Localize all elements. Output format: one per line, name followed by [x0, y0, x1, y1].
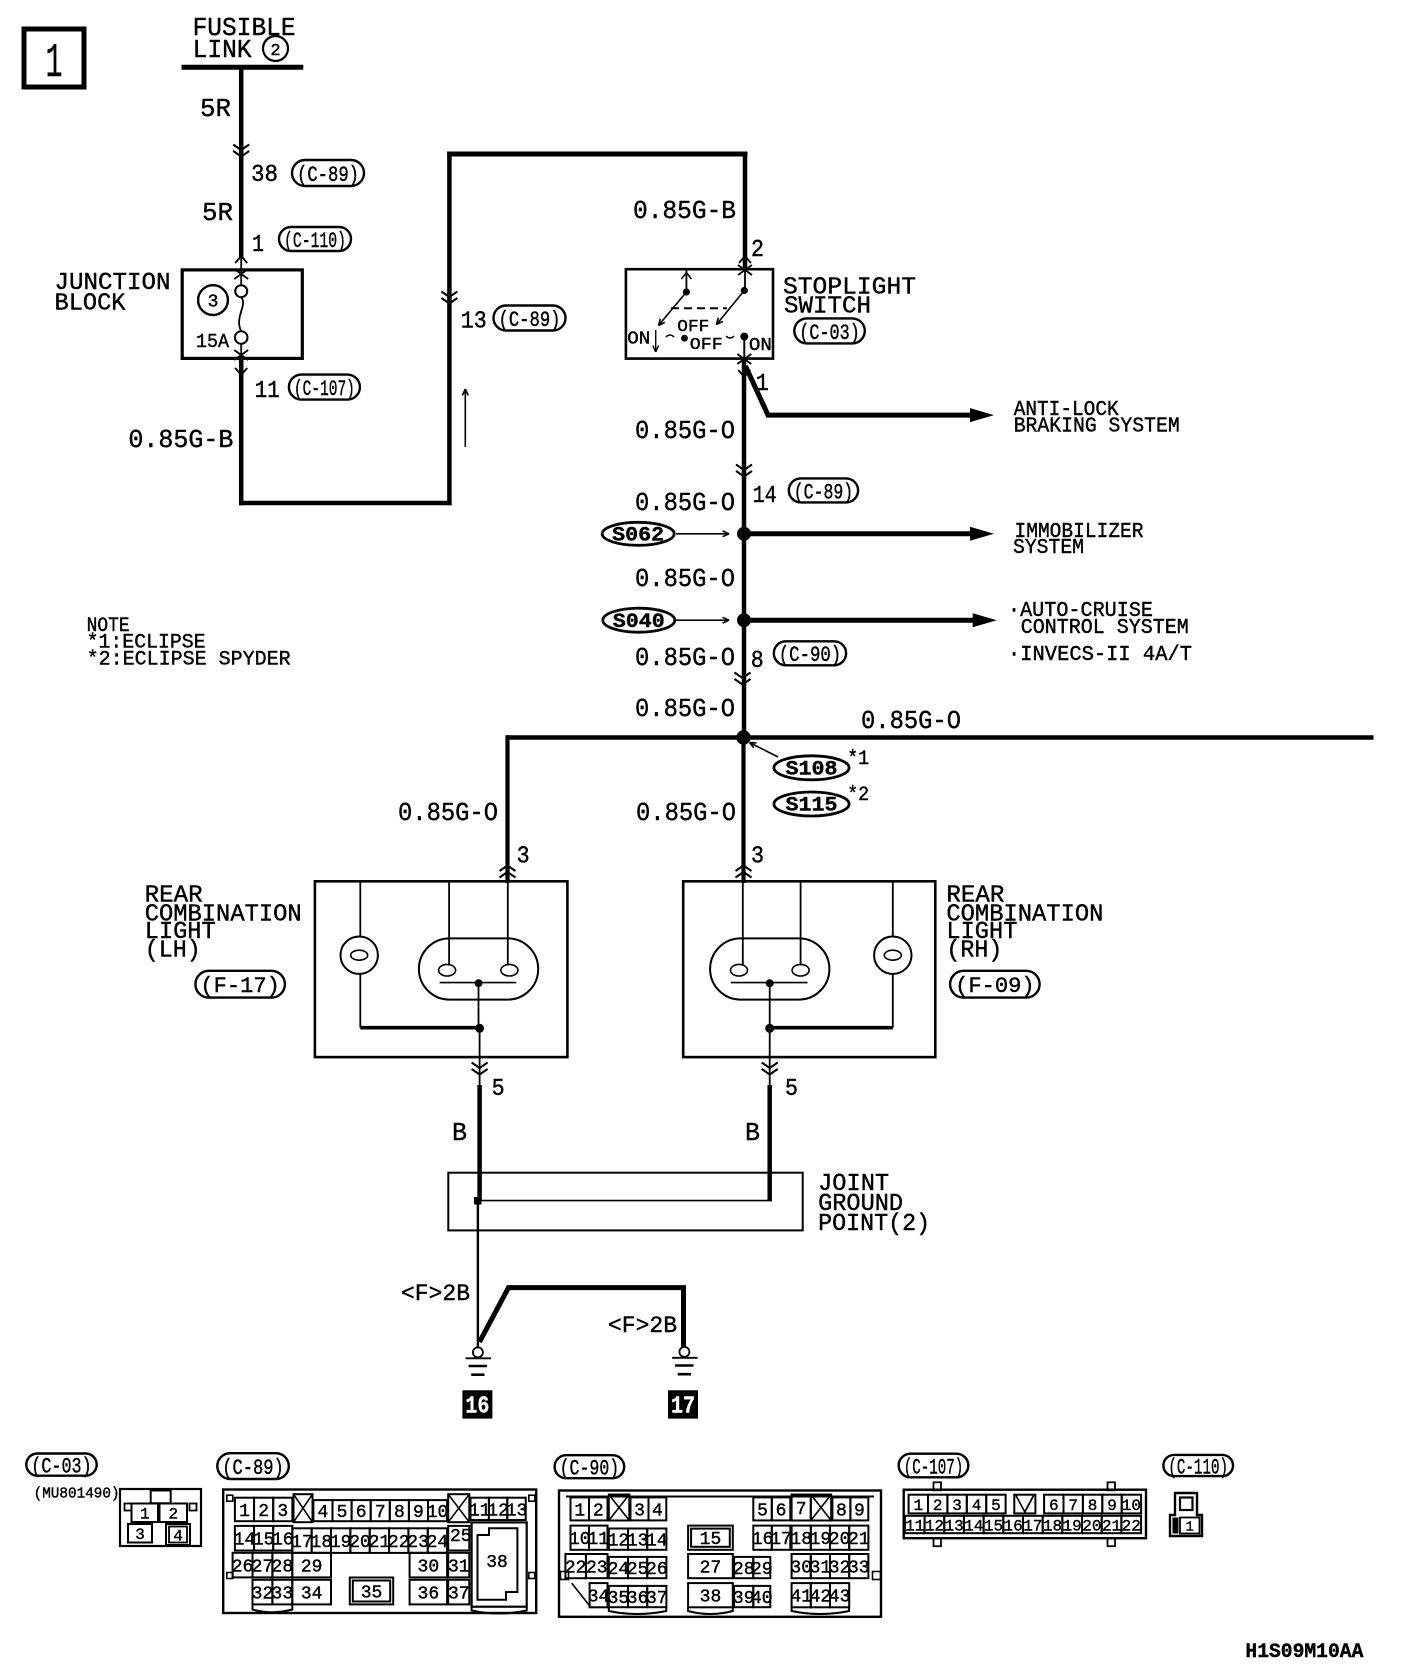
svg-text:31: 31 — [448, 1558, 470, 1578]
svg-text:CONTROL SYSTEM: CONTROL SYSTEM — [1021, 617, 1189, 640]
LH thick link wire — [360, 1026, 480, 1030]
svg-text:3: 3 — [517, 844, 530, 871]
svg-text:40: 40 — [751, 1589, 773, 1609]
connector chevrons at LH pin 5 — [472, 1063, 488, 1069]
svg-text:14: 14 — [753, 483, 777, 510]
svg-text:(LH): (LH) — [145, 937, 201, 964]
switch right pole — [741, 269, 748, 294]
switch left blade — [659, 292, 687, 326]
connector capsule C-110 — [279, 227, 351, 254]
junction dot on long wire — [736, 730, 750, 744]
svg-text:14: 14 — [646, 1532, 668, 1552]
svg-text:SWITCH: SWITCH — [784, 294, 871, 321]
arrow from S108 to junction — [750, 743, 779, 758]
svg-text:*2: *2 — [847, 784, 869, 807]
svg-text:S108: S108 — [786, 759, 838, 782]
LH small bulb wire down — [359, 974, 361, 1028]
svg-text:11: 11 — [905, 1517, 924, 1535]
junction dot at S040 — [737, 613, 751, 627]
svg-text:2: 2 — [168, 1506, 178, 1524]
svg-text:26: 26 — [232, 1558, 254, 1578]
svg-text:0.85G-B: 0.85G-B — [633, 196, 736, 226]
LH feed wire into bulb — [507, 881, 509, 965]
svg-text:34: 34 — [301, 1585, 323, 1605]
svg-text:21: 21 — [848, 1530, 870, 1550]
svg-text:9: 9 — [413, 1503, 424, 1523]
switch tilde right — [726, 336, 734, 338]
svg-text:ON: ON — [627, 329, 650, 349]
connector mark at junction block top — [234, 256, 248, 279]
connector capsule C-89 bottom — [217, 1453, 288, 1481]
svg-text:*2:ECLIPSE SPYDER: *2:ECLIPSE SPYDER — [87, 649, 291, 672]
switch right ON contact — [740, 333, 772, 357]
svg-text:33: 33 — [848, 1559, 870, 1579]
svg-text:17: 17 — [1023, 1517, 1042, 1535]
fusible link bus bar — [182, 65, 304, 70]
svg-text:(C-89): (C-89) — [297, 163, 359, 188]
svg-text:38: 38 — [486, 1553, 508, 1573]
svg-text:S115: S115 — [786, 795, 838, 818]
connector chevrons at 13 — [441, 292, 457, 298]
svg-text:S062: S062 — [612, 525, 664, 548]
ground symbol right — [672, 1347, 698, 1374]
main wire switch to rear lights — [742, 359, 747, 738]
rear combination light RH box — [683, 881, 935, 1057]
svg-text:28: 28 — [272, 1558, 294, 1578]
svg-text:1: 1 — [574, 1501, 585, 1521]
svg-text:(C-89): (C-89) — [222, 1456, 283, 1481]
svg-text:2: 2 — [933, 1497, 943, 1515]
sheet number box 1 — [24, 29, 84, 91]
svg-text:0.85G-O: 0.85G-O — [398, 798, 498, 828]
connector capsule C-107 bottom — [899, 1454, 969, 1481]
connector mark at junction block bottom — [234, 350, 248, 375]
switch right blade — [717, 291, 745, 325]
junction dot at S062 — [737, 527, 751, 541]
svg-text:9: 9 — [1107, 1497, 1117, 1515]
switch tilde left — [666, 335, 674, 337]
splice S115 — [774, 792, 849, 818]
svg-text:7: 7 — [796, 1500, 807, 1520]
ground id 16 — [462, 1390, 492, 1420]
svg-text:36: 36 — [418, 1585, 440, 1605]
svg-text:3: 3 — [208, 293, 219, 313]
svg-text:OFF: OFF — [690, 336, 723, 355]
stoplight switch label — [783, 274, 916, 320]
svg-text:32: 32 — [252, 1585, 274, 1605]
svg-text:4: 4 — [318, 1503, 329, 1523]
rear combination light LH box — [315, 881, 568, 1057]
svg-text:1: 1 — [913, 1497, 923, 1515]
circled 2 — [263, 36, 288, 61]
splice S062 — [602, 522, 674, 547]
connector chevrons at 14 — [736, 465, 752, 471]
svg-text:21: 21 — [1102, 1517, 1121, 1535]
LH ground wire B — [477, 1085, 482, 1201]
switch left pole — [681, 269, 691, 295]
arrow from S040 to wire — [676, 619, 729, 621]
svg-text:4: 4 — [652, 1501, 663, 1521]
svg-text:5: 5 — [785, 1076, 798, 1103]
arrow from S062 to wire — [676, 533, 729, 535]
svg-text:16: 16 — [465, 1394, 489, 1421]
svg-text:(C-90): (C-90) — [779, 643, 841, 668]
svg-text:9: 9 — [854, 1501, 865, 1521]
circled 3 fuse number — [198, 285, 228, 315]
RH bulb common dot — [766, 979, 774, 987]
svg-text:38: 38 — [251, 162, 278, 189]
junction block internal wire bottom — [240, 344, 242, 359]
svg-text:2: 2 — [270, 42, 280, 61]
svg-text:11: 11 — [255, 378, 280, 405]
svg-text:13: 13 — [944, 1517, 963, 1535]
svg-text:(RH): (RH) — [946, 937, 1002, 964]
svg-text:POINT(2): POINT(2) — [818, 1211, 930, 1238]
svg-text:1: 1 — [1186, 1520, 1194, 1536]
svg-text:4: 4 — [173, 1527, 183, 1545]
junction block label — [55, 270, 171, 318]
connector chevrons at LH pin 3 — [500, 872, 516, 878]
junction block internal wire top — [240, 270, 242, 285]
svg-text:SYSTEM: SYSTEM — [1013, 537, 1084, 560]
svg-text:(C-90): (C-90) — [560, 1457, 620, 1482]
ground symbol left — [466, 1347, 492, 1374]
connector chevrons at RH pin 5 — [762, 1063, 778, 1069]
RH thick link wire — [770, 1026, 893, 1030]
joint ground point box — [448, 1173, 802, 1231]
svg-text:0.85G-O: 0.85G-O — [635, 416, 735, 446]
connector capsule C-90 at 8 — [774, 641, 846, 668]
LH lamp pin wire left — [359, 881, 361, 936]
svg-text:0.85G-O: 0.85G-O — [635, 564, 735, 594]
auto-cruise control system label — [1008, 600, 1192, 667]
svg-text:3: 3 — [277, 1502, 288, 1522]
svg-text:(C-107): (C-107) — [294, 377, 355, 402]
LH small bulb — [341, 937, 378, 974]
svg-text:11: 11 — [587, 1530, 609, 1550]
svg-text:LINK: LINK — [193, 35, 252, 65]
ground lead left — [477, 1201, 479, 1347]
svg-text:BRAKING SYSTEM: BRAKING SYSTEM — [1014, 416, 1180, 439]
svg-text:0.85G-B: 0.85G-B — [128, 425, 233, 455]
connector chevrons at 8 — [735, 673, 751, 679]
svg-text:3: 3 — [952, 1497, 962, 1515]
switch dashed link — [671, 307, 727, 309]
svg-text:35: 35 — [361, 1583, 383, 1603]
svg-text:2: 2 — [751, 237, 764, 264]
splice S108 — [774, 756, 849, 782]
svg-text:7: 7 — [1068, 1497, 1078, 1515]
svg-text:OFF: OFF — [677, 318, 709, 337]
svg-text:3: 3 — [634, 1501, 645, 1521]
svg-text:(MU801490): (MU801490) — [34, 1486, 120, 1503]
connector chevrons at 38 — [233, 145, 249, 151]
svg-text:15: 15 — [700, 1530, 722, 1550]
RH common wire down — [769, 983, 771, 1028]
svg-text:6: 6 — [776, 1501, 787, 1521]
wire top run to stoplight switch — [447, 152, 747, 157]
svg-text:34: 34 — [588, 1588, 610, 1608]
RH feed wire into bulb — [742, 881, 744, 965]
svg-text:37: 37 — [646, 1589, 668, 1609]
svg-text:B: B — [452, 1118, 467, 1148]
LH bulb common dot — [475, 979, 483, 987]
svg-text:1: 1 — [46, 37, 63, 91]
svg-text:4: 4 — [972, 1497, 982, 1515]
svg-text:12: 12 — [925, 1517, 944, 1535]
wire into stoplight switch pin 2 — [743, 152, 748, 270]
svg-text:<F>2B: <F>2B — [401, 1281, 470, 1307]
svg-text:2: 2 — [258, 1502, 269, 1522]
LH common wire down — [478, 983, 480, 1028]
svg-text:15A: 15A — [196, 331, 230, 353]
connector mark at switch pin 1 — [737, 354, 751, 377]
switch left ON contact arrow — [627, 329, 658, 352]
svg-text:(C-89): (C-89) — [499, 308, 561, 333]
wire from junction block down — [239, 358, 244, 505]
RH junction dot — [765, 1024, 774, 1033]
svg-text:0.85G-O: 0.85G-O — [635, 488, 735, 518]
svg-text:30: 30 — [418, 1558, 440, 1578]
stoplight switch box — [626, 269, 773, 358]
svg-text:17: 17 — [671, 1394, 695, 1421]
svg-text:5: 5 — [337, 1503, 348, 1523]
RH dead-end pin wire — [800, 881, 802, 965]
C-03 connector drawing — [120, 1489, 201, 1546]
RH lamp pin wire right — [892, 881, 894, 936]
svg-text:BLOCK: BLOCK — [55, 291, 127, 318]
svg-text:(C-110): (C-110) — [284, 229, 346, 254]
svg-text:(C-89): (C-89) — [794, 480, 853, 505]
junction block box — [182, 270, 302, 359]
svg-text:22: 22 — [1122, 1517, 1141, 1535]
svg-text:0.85G-O: 0.85G-O — [636, 798, 736, 828]
svg-text:19: 19 — [1063, 1517, 1082, 1535]
connector capsule C-107 mid — [289, 375, 360, 402]
svg-text:10: 10 — [427, 1503, 449, 1523]
LH output wire — [479, 1028, 481, 1085]
joint ground terminal square — [474, 1197, 482, 1205]
note block — [87, 615, 291, 672]
svg-text:<F>2B: <F>2B — [608, 1313, 677, 1339]
branch to anti-lock braking system — [746, 366, 995, 422]
svg-text:26: 26 — [646, 1560, 668, 1580]
svg-text:16: 16 — [1004, 1517, 1023, 1535]
svg-text:*1: *1 — [847, 748, 869, 771]
connector capsule F-17 — [195, 971, 285, 999]
svg-text:6: 6 — [356, 1503, 367, 1523]
svg-text:(F-09): (F-09) — [955, 974, 1035, 999]
svg-text:5R: 5R — [202, 198, 233, 228]
svg-text:27: 27 — [700, 1559, 722, 1579]
wire riser up — [447, 152, 452, 506]
svg-text:22: 22 — [565, 1559, 587, 1579]
svg-text:1: 1 — [239, 1502, 250, 1522]
left drop wire to LH light — [505, 735, 509, 883]
svg-text:8: 8 — [836, 1501, 847, 1521]
connector chevrons at RH pin 3 — [736, 872, 752, 878]
long wire 0.85G-O across page — [507, 735, 1374, 740]
wire bottom run — [239, 501, 452, 506]
svg-text:8: 8 — [394, 1503, 405, 1523]
svg-text:5: 5 — [991, 1497, 1001, 1515]
joint ground point label — [818, 1171, 930, 1238]
wire 5R from fusible link — [239, 67, 244, 258]
svg-text:3: 3 — [751, 844, 764, 871]
fusible link 2 label — [193, 13, 296, 65]
splice S040 — [603, 608, 675, 634]
svg-text:29: 29 — [751, 1560, 773, 1580]
svg-text:0.85G-O: 0.85G-O — [635, 694, 735, 724]
joint ground internal bus — [478, 1200, 772, 1202]
RH dual filament bulb — [710, 938, 829, 999]
svg-text:2: 2 — [593, 1501, 604, 1521]
svg-text:27: 27 — [252, 1558, 274, 1578]
svg-text:(C-03): (C-03) — [31, 1455, 91, 1480]
branch to immobilizer system — [744, 527, 994, 541]
svg-text:6: 6 — [1049, 1497, 1059, 1515]
svg-text:·INVECS-II 4A/T: ·INVECS-II 4A/T — [1008, 644, 1192, 667]
svg-text:25: 25 — [450, 1527, 472, 1547]
svg-text:13: 13 — [461, 309, 487, 336]
svg-text:(C-107): (C-107) — [904, 1455, 964, 1480]
RH small bulb — [874, 937, 911, 974]
svg-text:15: 15 — [984, 1517, 1003, 1535]
connector capsule C-89 top — [292, 160, 364, 188]
svg-text:3: 3 — [135, 1526, 145, 1544]
ground branch wire — [480, 1288, 684, 1347]
svg-text:5: 5 — [757, 1501, 768, 1521]
svg-text:17: 17 — [770, 1530, 792, 1550]
LH dual filament bulb — [419, 938, 538, 999]
svg-text:14: 14 — [964, 1517, 983, 1535]
connector capsule C-110 bottom — [1163, 1455, 1233, 1481]
svg-text:S040: S040 — [613, 611, 665, 634]
rear combination light LH label — [145, 883, 302, 965]
svg-text:43: 43 — [829, 1588, 851, 1608]
svg-text:37: 37 — [448, 1585, 470, 1605]
svg-text:13: 13 — [506, 1501, 528, 1521]
svg-text:ON: ON — [749, 336, 772, 356]
svg-text:(C-110): (C-110) — [1168, 1455, 1228, 1480]
svg-text:10: 10 — [1122, 1497, 1141, 1515]
svg-text:1: 1 — [140, 1506, 150, 1524]
RH small bulb wire down — [892, 974, 894, 1028]
svg-text:23: 23 — [586, 1559, 608, 1579]
ground id 17 — [668, 1390, 698, 1420]
direction arrow up — [464, 389, 466, 447]
svg-text:1: 1 — [252, 232, 264, 259]
switch output wire inside box — [743, 337, 745, 359]
svg-text:24: 24 — [427, 1533, 449, 1553]
connector mark at switch pin 2 — [738, 256, 752, 275]
connector capsule C-90 bottom — [555, 1455, 625, 1481]
anti-lock braking system label — [1014, 399, 1180, 439]
svg-text:33: 33 — [272, 1585, 294, 1605]
svg-text:8: 8 — [1088, 1497, 1098, 1515]
svg-text:38: 38 — [700, 1588, 722, 1608]
svg-text:(F-17): (F-17) — [200, 974, 280, 999]
svg-text:(C-03): (C-03) — [799, 321, 860, 346]
svg-text:20: 20 — [1082, 1517, 1101, 1535]
connector capsule C-03 bottom — [26, 1454, 96, 1480]
svg-text:7: 7 — [375, 1503, 386, 1523]
RH output wire — [769, 1028, 771, 1085]
svg-text:5R: 5R — [200, 94, 231, 124]
C-89 connector drawing — [223, 1490, 536, 1614]
svg-text:0.85G-O: 0.85G-O — [635, 643, 735, 673]
C-107 connector drawing — [904, 1482, 1146, 1546]
connector capsule C-89 mid — [494, 306, 566, 333]
C-90 connector drawing — [559, 1491, 881, 1617]
C-110 connector drawing — [1170, 1493, 1202, 1536]
svg-text:29: 29 — [301, 1558, 323, 1578]
fuse 15A — [196, 285, 248, 353]
branch to auto-cruise — [744, 613, 997, 627]
svg-text:18: 18 — [1043, 1517, 1062, 1535]
LH junction dot — [475, 1024, 484, 1033]
svg-text:8: 8 — [751, 648, 764, 675]
svg-text:0.85G-O: 0.85G-O — [861, 706, 961, 736]
connector capsule C-89 at 14 — [789, 478, 858, 505]
svg-text:H1S09M10AA: H1S09M10AA — [1245, 1641, 1363, 1664]
LH dead-end pin wire — [448, 881, 450, 965]
svg-text:5: 5 — [492, 1076, 505, 1103]
immobilizer system label — [1013, 521, 1144, 560]
connector capsule C-03 at switch — [794, 318, 865, 345]
RH ground wire B — [767, 1085, 772, 1201]
switch OFF contact dot — [681, 335, 688, 342]
svg-text:B: B — [745, 1118, 760, 1148]
rear combination light RH label — [946, 883, 1103, 965]
connector capsule F-09 — [950, 971, 1040, 999]
